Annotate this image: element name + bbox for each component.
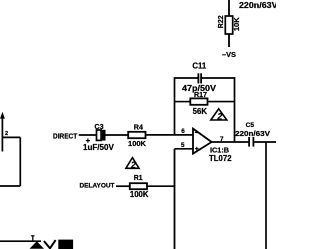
wire R1 to pin5 net [147, 185, 175, 187]
value 56K [193, 107, 208, 116]
wire R17 row left [175, 101, 191, 103]
label R17 [194, 91, 207, 99]
svg-text:220n/63V: 220n/63V [239, 1, 276, 10]
wire feedback box right vertical [234, 77, 236, 142]
wire down left block [19, 137, 21, 186]
label R22 [218, 15, 225, 28]
op-amp IC1:B [193, 129, 212, 154]
wire feedback box top right [202, 77, 235, 79]
svg-text:R4: R4 [134, 122, 143, 131]
tick above diode [31, 236, 34, 241]
capacitor C5 [249, 137, 253, 147]
pin 7 [220, 136, 224, 143]
wire output node down to bottom [265, 142, 267, 249]
potentiometer wiper arrow (left edge, clipped) [0, 112, 5, 152]
capacitor C11 [198, 73, 201, 83]
svg-text:10K: 10K [232, 17, 241, 31]
svg-text:5: 5 [181, 142, 185, 149]
svg-text:C11: C11 [192, 62, 207, 71]
value 100K [128, 139, 147, 148]
label DIRECT [53, 131, 78, 140]
wire C5 to right edge [254, 141, 276, 143]
svg-text:R22: R22 [218, 15, 225, 28]
wire feedback box left vertical [174, 77, 176, 135]
power -VS [222, 50, 236, 59]
label C3 [94, 122, 103, 131]
pin 6 [181, 128, 185, 135]
value 10K [232, 17, 241, 31]
wire pin2 right [3, 136, 21, 138]
svg-text:DELAYOUT: DELAYOUT [80, 183, 116, 190]
crossing wires V (clipped) [44, 240, 56, 248]
diode triangle (clipped) [30, 241, 45, 248]
wire op-amp output to C5 [212, 141, 249, 143]
value 1uF/50V [83, 143, 115, 152]
svg-text:2: 2 [130, 160, 136, 170]
wire C3 to R4 [106, 134, 129, 136]
value 47p/50V [182, 84, 217, 93]
wire DELAYOUT to R1 [116, 185, 130, 187]
label TL072 [209, 154, 232, 163]
svg-text:–VS: –VS [222, 50, 236, 59]
wire feedback box top left [174, 77, 198, 79]
svg-text:TL072: TL072 [209, 154, 232, 163]
label R1 [134, 175, 143, 182]
svg-text:100K: 100K [130, 190, 149, 199]
svg-text:6: 6 [181, 128, 185, 135]
wire R17 row right [208, 101, 235, 103]
svg-text:2: 2 [216, 112, 222, 122]
resistor R4 [128, 132, 145, 138]
label C5 [246, 122, 255, 129]
node marker triangle 2 (lower) [126, 158, 139, 170]
capacitor value label 220n/63V (top right, clipped) [239, 1, 278, 10]
svg-text:220n/63V: 220n/63V [235, 129, 270, 138]
wire R22 top lead [228, 0, 230, 17]
label IC1:B [210, 145, 229, 154]
value 100K [130, 190, 149, 199]
connector block (clipped) [58, 240, 73, 249]
wire R22 bottom lead [228, 34, 230, 47]
svg-text:100K: 100K [128, 139, 147, 148]
label DELAYOUT [80, 183, 116, 190]
svg-text:2: 2 [5, 131, 8, 137]
label C11 [192, 62, 207, 71]
wire pin5 down to bottom [174, 149, 176, 249]
capacitor C3 (polarized) [97, 130, 106, 141]
svg-text:R1: R1 [134, 175, 143, 182]
resistor R1 [130, 183, 147, 189]
polarity + [86, 139, 90, 143]
svg-text:1uF/50V: 1uF/50V [83, 143, 115, 152]
pin 2 [5, 131, 8, 137]
svg-text:56K: 56K [193, 107, 208, 116]
wire bottom left block [0, 185, 20, 187]
wire DIRECT to C3 [79, 134, 97, 136]
svg-text:IC1:B: IC1:B [210, 145, 229, 154]
resistor R22 [225, 16, 232, 34]
wire pin5 horizontal [175, 148, 194, 150]
label R4 [134, 122, 143, 131]
value 220n/63V [235, 129, 270, 138]
svg-text:DIRECT: DIRECT [53, 131, 78, 140]
pin 5 [181, 142, 185, 149]
node marker triangle 2 (upper) [211, 109, 227, 122]
wire R4 to pin6 [146, 134, 194, 136]
wire bottom rail [0, 240, 41, 242]
resistor R17 [190, 98, 207, 104]
